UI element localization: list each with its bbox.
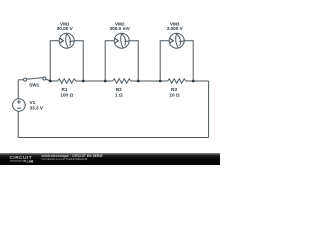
svg-text:R1: R1 [62,87,68,92]
component labels [29,21,184,110]
wire bottom rail [18,137,208,139]
wire left vertical (switch corner down to V1 top) [17,80,19,99]
svg-text:30.00 V: 30.00 V [57,26,74,31]
CircuitLab logo [10,155,34,163]
switch SW1 [24,77,51,81]
svg-text:circuitlab.com/c/7k2e4zb8w9q2: circuitlab.com/c/7k2e4zb8w9q2 [42,157,88,161]
wire V1 bottom to bottom rail [17,111,19,137]
resistor R1 [58,79,76,83]
svg-text:V1: V1 [30,100,36,105]
voltmeter VM1 [50,33,83,81]
svg-text:300.0 mV: 300.0 mV [110,26,131,31]
svg-text:3.000 V: 3.000 V [167,26,184,31]
junction node R1/VM1 [82,80,85,83]
svg-text:SW1: SW1 [29,83,40,88]
resistor R3 [168,79,186,83]
voltmeter VM2 [105,33,138,81]
junction node SW1/VM1/R1 [49,80,52,83]
junction node R2/VM2 [137,80,140,83]
junction node VM3/R3 [159,80,162,83]
wire R2 to R3 [131,80,168,82]
voltmeter VM3 [160,33,193,81]
wire right vertical [208,81,210,138]
resistor R2 [113,79,131,83]
wire switch stub [18,79,23,81]
svg-text:1 Ω: 1 Ω [115,93,123,98]
wire R1 to R2 [76,80,113,82]
voltage source V1 [13,99,26,112]
svg-text:100 Ω: 100 Ω [60,93,73,98]
wire R3 to right corner [186,80,209,82]
node A (switch / VM1 left junction) [50,80,58,82]
svg-text:R2: R2 [116,87,122,92]
junction node VM2/R2 [104,80,107,83]
junction node R3/VM3 [192,80,195,83]
svg-text:10 Ω: 10 Ω [169,93,180,98]
footer bar [0,153,220,165]
svg-text:R3: R3 [171,87,177,92]
svg-text:LAB: LAB [27,159,34,163]
svg-text:33.3 V: 33.3 V [30,106,44,111]
